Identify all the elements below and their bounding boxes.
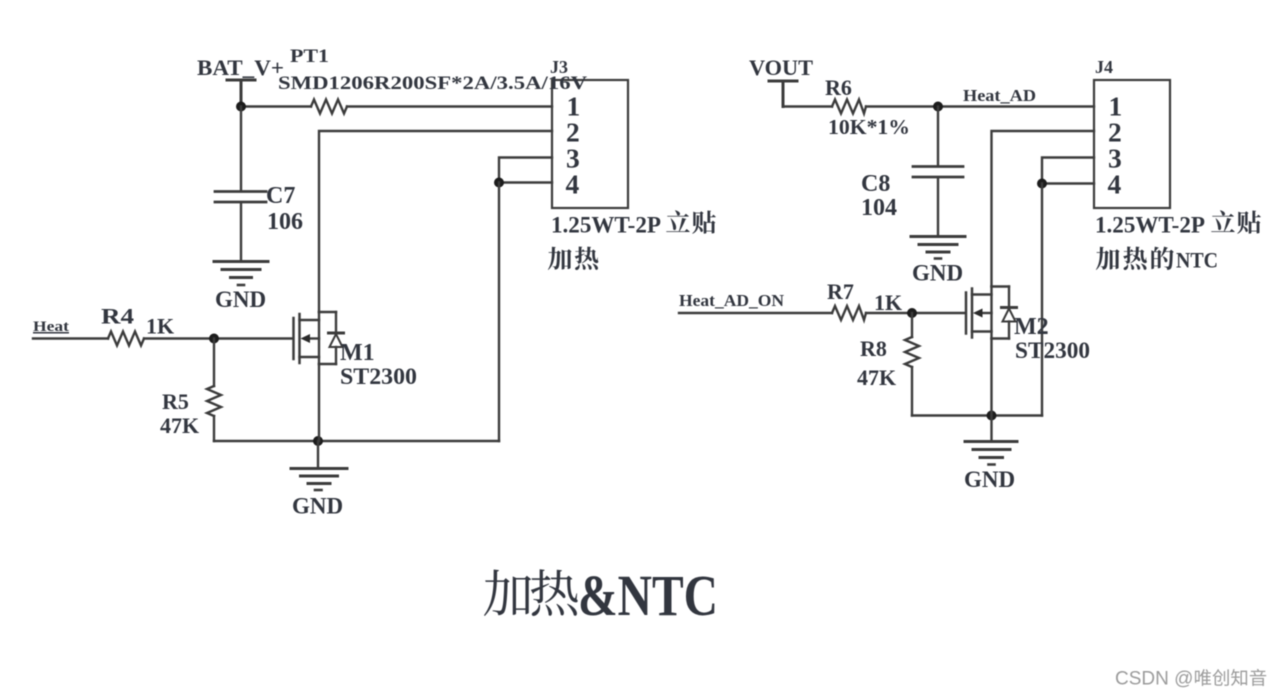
svg-text:4: 4 [566,169,580,200]
comment 加热 (J3) [548,247,572,270]
wire PT1 to J3 pin1 [347,105,552,107]
svg-text:1K: 1K [874,290,902,315]
capacitor C8 plates [913,167,963,178]
wire J3 pin2 to M1 drain [319,131,552,312]
ground symbol under C7 [214,260,268,263]
svg-text:4: 4 [1108,169,1122,200]
svg-text:GND: GND [292,494,343,519]
wire J4 pin3 [1042,158,1094,184]
transistor M2 bulk stub [980,312,992,314]
svg-text:&NTC: &NTC [578,563,718,628]
svg-text:NTC: NTC [1176,248,1218,273]
capacitor C7 plates [215,192,266,203]
wire J4 pin4 [1042,182,1094,184]
wire node down to R5 [213,339,215,387]
node gate junction dot [209,334,219,344]
wire pins3/4 down to bottom rail right [1041,184,1043,416]
node source junction dot right [987,411,997,421]
node source junction dot [313,436,323,446]
svg-text:PT1: PT1 [290,46,329,67]
svg-text:VOUT: VOUT [749,55,813,80]
transistor M1 gate bar [292,318,295,359]
svg-text:1.25WT-2P: 1.25WT-2P [1095,213,1205,238]
svg-text:ST2300: ST2300 [1015,338,1090,363]
svg-text:Heat: Heat [33,319,69,335]
svg-text:Heat_AD_ON: Heat_AD_ON [679,291,785,310]
svg-text:M1: M1 [340,340,375,366]
node pin3/4 junction dot right [1037,179,1047,189]
svg-text:J4: J4 [1095,57,1113,77]
svg-text:SMD1206R200SF*2A/3.5A/16V: SMD1206R200SF*2A/3.5A/16V [278,73,587,94]
transistor M2 source-diode link [992,337,1010,339]
svg-text:M2: M2 [1014,314,1049,340]
svg-text:GND: GND [215,287,266,312]
resistor R6 zigzag [832,100,866,114]
node pin3/4 junction dot [494,178,504,188]
svg-text:GND: GND [964,467,1015,492]
node gate junction dot right [907,308,917,318]
connector J3 box [552,80,628,208]
transistor M2 drain stub [972,293,992,295]
svg-text:CSDN @: CSDN @ [1115,669,1193,690]
wire R6 to J4 pin1 [866,105,1094,107]
transistor M2 right bus [990,287,992,339]
wire R4 to M1 gate [144,337,293,339]
svg-text:Heat_AD: Heat_AD [963,86,1036,105]
comment 加热的NTC (J4) [1096,247,1120,270]
svg-text:47K: 47K [857,365,896,390]
transistor M2 gate bar [965,293,968,334]
transistor M1 bulk arrow [301,334,311,343]
transistor M1 drain stub [300,319,320,321]
svg-text:R7: R7 [827,279,854,304]
transistor M1 drain-diode link [319,311,336,313]
node BAT junction dot [236,102,246,112]
title 加热&NTC [484,570,531,616]
svg-text:10K*1%: 10K*1% [828,115,910,139]
svg-text:1.25WT-2P: 1.25WT-2P [551,213,661,238]
connector J4 box [1094,80,1170,208]
wire node down to R8 [911,313,913,337]
ground symbol under M1 [291,467,347,470]
resistor R4 zigzag [108,332,144,346]
wire R5 to bottom rail [213,416,215,441]
wire bottom rail left [214,440,499,442]
transistor M1 source stub [300,356,320,358]
wire node down to C8 [937,107,939,166]
wire C8 to ground [937,178,939,235]
wire J3 pin3 [499,158,552,183]
svg-text:R8: R8 [860,336,887,361]
wire VOUT to R6 [783,105,832,107]
wire M1 source to bottom rail [318,364,320,441]
wire junction to ground right [990,416,992,441]
transistor M1 bulk stub [307,337,319,339]
transistor M1 body diode [335,312,337,332]
transistor M2 bulk arrow [973,309,983,318]
transistor M1 channel bar [298,314,301,363]
resistor R5 zigzag [207,386,221,416]
svg-text:C7: C7 [266,183,295,209]
transistor M2 body diode [1008,287,1010,307]
wire BAT node to PT1 [241,105,311,107]
svg-text:R4: R4 [101,304,134,329]
power symbol BAT_V+ bar [227,80,255,107]
svg-text:R5: R5 [162,389,189,414]
wire J3 pin4 [499,181,552,183]
svg-text:C8: C8 [861,171,890,197]
wire junction to ground [317,441,319,467]
svg-text:104: 104 [861,195,897,221]
wire R7 to M2 gate [866,312,966,314]
svg-text:J3: J3 [550,57,568,77]
wire bottom rail right [912,414,1042,416]
transistor M2 source stub [972,330,992,332]
power symbol VOUT bar [769,81,797,107]
resistor R8 zigzag [905,337,919,367]
ground symbol under C8 [911,235,965,238]
wire Heat net to R4 [33,337,108,339]
svg-text:106: 106 [267,209,303,235]
resistor R7 zigzag [832,306,866,320]
svg-text:1K: 1K [146,314,174,339]
wire C7 to ground [240,203,242,260]
wire BAT node down to C7 [240,107,242,191]
wire J4 pin2 to M2 drain [992,131,1095,287]
svg-text:47K: 47K [160,413,199,438]
node Heat_AD junction dot [933,102,943,112]
svg-text:R6: R6 [825,75,852,100]
svg-text:ST2300: ST2300 [340,364,417,389]
ground symbol under M2 [965,440,1017,443]
transistor M1 right bus [318,312,320,364]
svg-text:GND: GND [912,261,963,286]
transistor M1 source-diode link [319,363,336,365]
resistor PT1 zigzag [311,100,347,114]
wire R8 to bottom rail [911,367,913,416]
transistor M2 channel bar [971,289,974,338]
wire M2 source to bottom rail [990,339,992,416]
transistor M2 drain-diode link [992,285,1010,287]
wire pins3/4 down to bottom rail [498,183,500,442]
svg-text:BAT_V+: BAT_V+ [197,55,284,80]
wire Heat_AD_ON net to R7 [679,312,832,314]
